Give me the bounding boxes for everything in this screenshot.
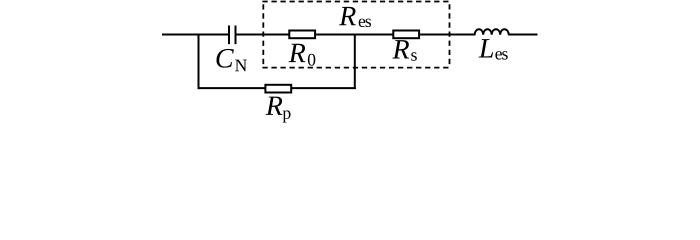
capacitor CN bbox=[229, 26, 236, 45]
wire R0 to Rs bbox=[316, 34, 393, 36]
wire right lead bbox=[508, 34, 537, 36]
label Les bbox=[479, 39, 508, 59]
label CN bbox=[216, 49, 246, 71]
wire capacitor to R0 bbox=[237, 34, 290, 36]
resistor Rs bbox=[393, 31, 419, 39]
label R0 bbox=[289, 44, 316, 66]
wire left lead bbox=[162, 34, 228, 36]
resistor R0 bbox=[289, 31, 315, 39]
wire bottom rail right bbox=[291, 87, 356, 89]
label Rp bbox=[266, 97, 291, 123]
wire bottom rail left bbox=[198, 87, 266, 89]
wire Rs to inductor bbox=[420, 34, 475, 36]
wire left vertical branch bbox=[198, 34, 200, 90]
inductor Les bbox=[475, 29, 509, 35]
dashed box Res bbox=[262, 2, 450, 68]
resistor Rp bbox=[265, 85, 291, 93]
label Rs bbox=[392, 40, 416, 61]
wire middle vertical branch bbox=[354, 34, 356, 90]
label Res bbox=[339, 7, 371, 27]
